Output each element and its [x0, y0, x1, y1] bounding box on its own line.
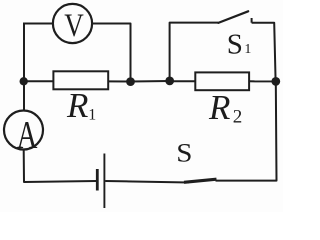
switch S blade (closed) — [184, 179, 217, 182]
switch S1 open blade — [218, 11, 248, 23]
battery negative plate (short, thick) — [96, 169, 99, 191]
ammeter circle — [4, 111, 43, 150]
wire: battery to switch S — [105, 181, 189, 183]
wire: node C to R2 — [170, 80, 196, 82]
svg-text:1: 1 — [244, 42, 251, 57]
svg-text:R: R — [208, 88, 230, 127]
switch S1 right contact tick — [251, 18, 253, 23]
wire: S1 branch left vertical — [170, 23, 219, 81]
battery positive plate (long, thin) — [103, 154, 105, 209]
svg-text:1: 1 — [88, 106, 96, 123]
node A junction dot — [20, 77, 28, 85]
wire: voltmeter right to corner and down to node B — [93, 24, 131, 82]
svg-text:2: 2 — [233, 107, 243, 128]
svg-text:S: S — [227, 29, 243, 61]
wire: node A to R1 — [24, 80, 53, 82]
wire: left rail ammeter to bottom-left corner then to battery — [24, 150, 97, 182]
node B junction dot — [126, 77, 135, 86]
wire: left rail top corner down to ammeter — [23, 23, 25, 111]
wire: S1 right to corner and down to node D — [252, 23, 276, 82]
resistor R2 box — [195, 72, 249, 90]
wire: node B to node C — [131, 80, 170, 83]
svg-text:R: R — [66, 86, 88, 125]
wire: top-left horizontal from left rail to voltmeter — [24, 23, 52, 25]
svg-text:S: S — [176, 138, 192, 167]
voltmeter U-V circle — [53, 4, 92, 43]
node D junction dot — [271, 77, 280, 86]
wire: R2 to node D — [249, 80, 276, 82]
resistor R1 box — [53, 71, 108, 89]
wire: R1 to node B — [108, 80, 130, 82]
wire: right rail node D down to bottom-right corner then left to switch S — [216, 81, 277, 180]
svg-text:V: V — [64, 7, 84, 44]
svg-text:A: A — [17, 113, 38, 156]
node C junction dot — [165, 77, 174, 86]
